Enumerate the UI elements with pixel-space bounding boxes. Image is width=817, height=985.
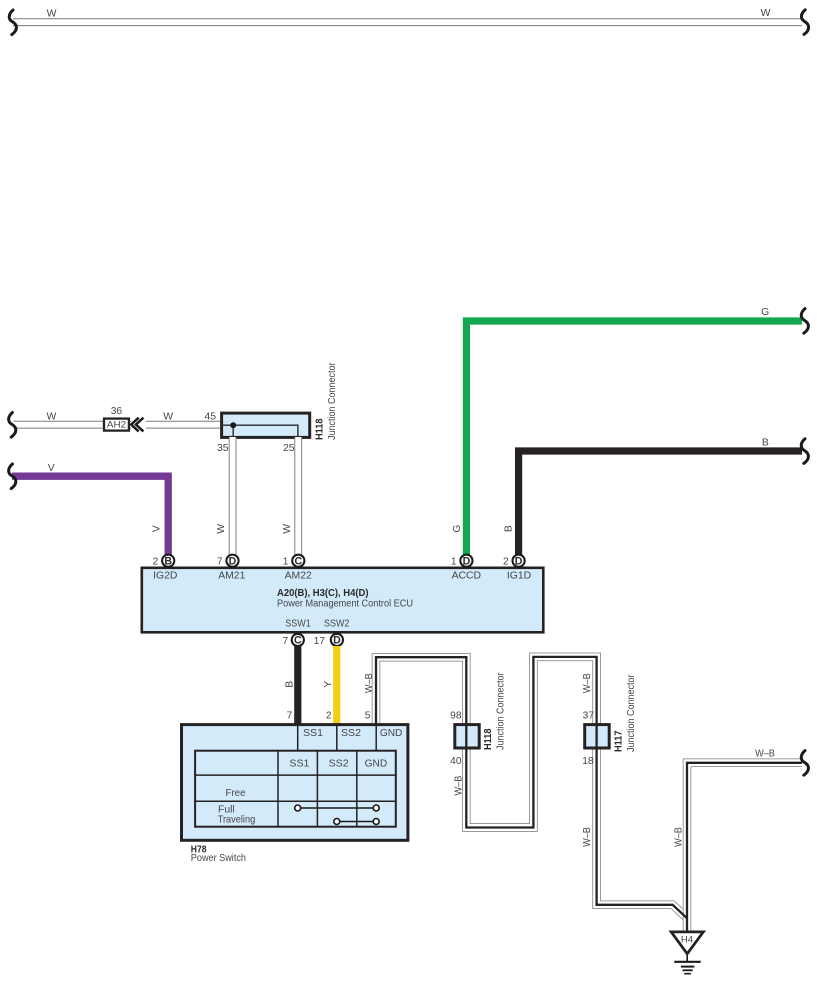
svg-text:AM21: AM21 [218,570,245,581]
pin 2(D) IG1D [503,555,531,582]
svg-text:H118: H118 [315,418,326,440]
svg-text:W–B: W–B [673,827,684,847]
pin 1(C) AM22 [283,555,312,582]
svg-text:H4: H4 [681,935,694,946]
svg-text:7: 7 [287,710,293,721]
svg-text:B: B [762,438,769,449]
svg-text:V: V [48,463,55,474]
svg-text:1: 1 [451,556,457,567]
svg-text:37: 37 [583,710,595,721]
svg-text:2: 2 [326,710,332,721]
svg-text:W: W [46,411,56,422]
svg-text:SS2: SS2 [341,728,361,739]
pin 7(C) SSW1 [283,634,304,647]
svg-text:Junction Connector: Junction Connector [626,674,637,752]
switch state table [194,750,396,827]
svg-text:Power Management Control ECU: Power Management Control ECU [277,599,413,610]
svg-text:C: C [294,556,302,568]
svg-text:Junction Connector: Junction Connector [327,362,338,440]
pin 7(D) AM21 [217,555,246,582]
svg-text:SSW1: SSW1 [285,619,311,630]
pin 17(D) SSW2 [314,634,343,647]
svg-text:Free: Free [226,788,246,799]
svg-text:W–B: W–B [755,749,775,760]
chevron pair (harness break) [131,418,143,432]
svg-text:IG2D: IG2D [153,570,177,581]
svg-text:SS1: SS1 [289,758,309,769]
wire B (SSW1 to power switch SS1) [294,646,301,724]
svg-text:W–B: W–B [582,673,593,693]
wire W (H118 pin 25 to AM22) [294,437,302,555]
svg-text:AM22: AM22 [285,570,312,581]
power switch H78 box [182,725,408,841]
svg-text:B: B [504,525,515,532]
svg-text:D: D [333,635,341,647]
svg-text:36: 36 [111,406,123,417]
node: junction dot inside H118 [230,422,236,428]
svg-text:C: C [294,635,302,647]
wire W (left, into AH2) [14,421,132,429]
svg-text:B: B [164,556,172,568]
junction connector H118 (lower) [455,723,479,749]
svg-text:H118: H118 [483,728,494,750]
wire W-B (right break to ground H4) [687,763,802,931]
svg-text:IG1D: IG1D [507,570,531,581]
svg-text:GND: GND [365,758,388,769]
svg-text:SSW2: SSW2 [324,619,350,630]
svg-text:SS2: SS2 [329,758,349,769]
svg-text:G: G [761,307,769,318]
svg-text:Power Switch: Power Switch [191,853,246,864]
svg-text:V: V [152,525,163,532]
break symbol left of wire W top [9,10,16,35]
svg-text:SS1: SS1 [303,728,323,739]
svg-text:GND: GND [380,728,403,739]
svg-text:W–B: W–B [582,827,593,847]
break symbol left of wire V [9,464,16,489]
ECU A20(B), H3(C), H4(D) Power Management Control ECU [142,568,544,633]
contact Full Traveling SS1-GND [295,805,380,811]
svg-text:2: 2 [153,556,159,567]
contact Full Traveling SS2-GND [334,819,379,825]
wire inside H118 (to pin 35 / pin 25) [221,425,298,437]
svg-text:1: 1 [283,556,289,567]
svg-text:W–B: W–B [454,776,465,796]
svg-text:W: W [282,524,293,534]
svg-text:40: 40 [450,756,462,767]
svg-text:D: D [515,556,523,568]
wire G (green, to ACCD) [466,321,802,555]
svg-text:2: 2 [503,556,509,567]
svg-text:G: G [452,525,463,533]
pin 1(D) ACCD [451,555,481,582]
svg-text:W: W [216,524,227,534]
svg-text:35: 35 [217,443,229,454]
junction connector H118 (upper box) [222,413,310,437]
svg-text:ACCD: ACCD [452,570,481,581]
svg-text:Y: Y [323,681,334,688]
svg-text:B: B [285,681,296,688]
svg-text:25: 25 [283,443,295,454]
svg-text:H117: H117 [614,730,625,752]
junction connector H117 [585,723,610,749]
pin 2(B) IG2D [153,555,178,582]
connector AH2 [104,419,129,431]
break symbol right of wire B [801,439,808,464]
svg-text:18: 18 [582,756,594,767]
ground H4 [671,932,703,974]
svg-text:5: 5 [365,710,371,721]
wire V (violet, to IG2D) [12,476,168,554]
svg-text:W: W [761,8,771,19]
svg-text:7: 7 [217,556,223,567]
wire B (black, to IG1D) [519,451,802,555]
dividers SS1/SS2/GND compartments [298,723,377,750]
black stripes of W-B wires [376,657,687,918]
break symbol right of wire W top [801,10,808,35]
wire W (top, white) [13,18,802,26]
svg-text:7: 7 [283,636,289,647]
svg-text:Junction Connector: Junction Connector [495,672,506,750]
svg-text:AH2: AH2 [107,420,126,430]
wire W-B (GND loop through H118 / H117 to ground) [376,657,687,918]
break symbol right of wire G [801,309,808,334]
svg-text:Traveling: Traveling [218,814,256,825]
wire W (AH2 to H118 pin 45) [146,421,232,429]
wire W (H118 pin 35 to AM21) [229,437,237,555]
svg-text:A20(B), H3(C), H4(D): A20(B), H3(C), H4(D) [277,588,369,599]
break symbol right of W-B wire [801,751,808,776]
svg-text:98: 98 [450,710,462,721]
svg-text:W: W [47,8,57,19]
svg-text:D: D [229,556,237,568]
wire Y (SSW2 to power switch SS2) [333,646,340,724]
svg-text:45: 45 [204,411,216,422]
svg-text:W: W [163,411,173,422]
break symbol left of wire W [9,413,16,438]
svg-text:D: D [463,556,471,568]
svg-text:17: 17 [314,636,326,647]
svg-text:W–B: W–B [364,673,375,693]
